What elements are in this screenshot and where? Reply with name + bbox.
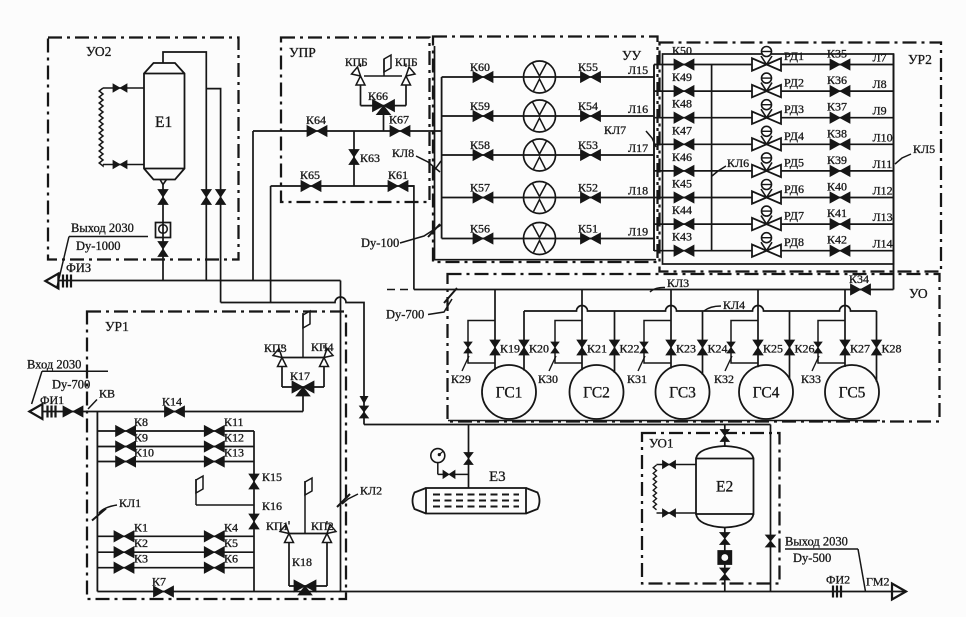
svg-text:К33: К33 (801, 372, 821, 386)
svg-text:К52: К52 (578, 181, 598, 195)
svg-text:К36: К36 (827, 73, 847, 87)
valve К21 (577, 340, 587, 355)
svg-text:УР2: УР2 (908, 52, 932, 67)
wire right column of УР1 (253, 431, 255, 592)
svg-text:К16: К16 (262, 499, 282, 513)
svg-text:К59: К59 (470, 99, 490, 113)
svg-text:КЛ5: КЛ5 (913, 142, 935, 156)
svg-text:КЛ8: КЛ8 (392, 146, 414, 160)
svg-text:Л7: Л7 (873, 51, 887, 65)
svg-text:РД5: РД5 (784, 155, 804, 169)
svg-text:Dy-700: Dy-700 (386, 308, 424, 322)
svg-text:УО1: УО1 (649, 436, 673, 451)
svg-text:Вход 2030: Вход 2030 (27, 358, 81, 372)
valve К54 (581, 111, 601, 122)
wire metering line Л19 (442, 238, 654, 240)
valve К47 (674, 139, 694, 150)
valve К1 (114, 531, 134, 542)
svg-text:К31: К31 (627, 372, 647, 386)
enclosure box УУ (433, 37, 658, 263)
valve К49 (674, 86, 694, 97)
three-way valve К18 (294, 580, 316, 592)
svg-text:КП1: КП1 (266, 519, 289, 533)
valve КВ (63, 406, 83, 417)
svg-text:КП3: КП3 (264, 341, 287, 355)
valve on coil top line (113, 84, 127, 92)
wire reduction line Л9 (654, 117, 894, 119)
svg-text:Dy-500: Dy-500 (793, 551, 831, 565)
gas holder ГС5 (825, 365, 879, 419)
valve К11 (204, 426, 224, 437)
svg-text:К61: К61 (388, 168, 408, 182)
wire metering line Л17 (442, 154, 654, 156)
flow meter on line Л15 (524, 61, 556, 93)
svg-text:К44: К44 (672, 203, 692, 217)
svg-text:Л16: Л16 (628, 102, 648, 116)
svg-text:Л10: Л10 (873, 130, 893, 144)
svg-text:К45: К45 (672, 177, 692, 191)
wire feed from КЛ3 to ГС2 (581, 290, 583, 371)
wire reduction line К3-К6 (97, 567, 254, 569)
vent candle of К66 loop (383, 59, 385, 76)
valve on Е2 coil top (663, 461, 676, 469)
svg-text:К20: К20 (529, 342, 549, 356)
valve К41 (830, 219, 850, 230)
valve К7 (154, 586, 174, 597)
svg-text:ФИ2: ФИ2 (826, 573, 850, 587)
svg-text:К54: К54 (578, 99, 598, 113)
wire collector КЛ2 drop from header (340, 281, 342, 592)
valve К59 (473, 111, 493, 122)
wire Е1 top outlet to risers (163, 52, 206, 281)
wire К66 bypass loop (360, 85, 362, 106)
flow arrow on Dy-700 drop (360, 396, 369, 404)
svg-text:К32: К32 (714, 372, 734, 386)
device (heater) on Е1 outlet (156, 223, 171, 238)
wire reduction line Л12 (654, 197, 894, 199)
pressure regulator РД2 (752, 85, 781, 97)
svg-text:К67: К67 (389, 113, 409, 127)
svg-text:УУ: УУ (622, 48, 642, 63)
svg-text:К29: К29 (451, 372, 471, 386)
wire feed from КЛ3 to ГС4 (757, 290, 759, 368)
svg-text:Л15: Л15 (628, 63, 648, 77)
wire inlet line (42, 411, 303, 413)
gas holder ГС3 (656, 365, 710, 419)
svg-text:КЛ1: КЛ1 (119, 496, 141, 510)
svg-text:К24: К24 (708, 342, 728, 356)
valve on Е1 outlet lower (158, 242, 168, 257)
wire Dy-700 line (line C) (221, 297, 364, 425)
valve К58 (473, 150, 493, 161)
wire riser branch (206, 89, 220, 303)
valve on Е2 outlet upper (720, 533, 730, 545)
svg-text:К5: К5 (224, 536, 238, 550)
svg-text:Л11: Л11 (873, 157, 893, 171)
svg-text:ФИ1: ФИ1 (40, 393, 64, 407)
valve К38 (830, 139, 850, 150)
vessel Е3 (413, 488, 540, 514)
svg-text:РД3: РД3 (784, 102, 804, 116)
vessel Е2 (696, 446, 754, 528)
valve К6 (204, 562, 224, 573)
enclosure box УО (448, 274, 940, 422)
svg-text:К55: К55 (578, 60, 598, 74)
valve К64 (307, 126, 327, 137)
valve К37 (830, 112, 850, 123)
valve К34 (851, 284, 871, 295)
flow meter on line Л18 (524, 182, 556, 214)
valve К24 (698, 340, 708, 355)
wire reduction line К2-К5 (97, 551, 254, 553)
wire feed from КЛ3 to ГС5 (844, 290, 846, 367)
valve К63 (349, 150, 359, 165)
valve К5 (204, 547, 224, 558)
valve on Е2 bypass (766, 535, 776, 547)
insulating joint ФИЗ (62, 275, 64, 288)
enclosure box УО2 (48, 38, 239, 260)
valve on Dy-700 drop (360, 406, 369, 418)
svg-text:УПР: УПР (289, 45, 316, 60)
svg-text:ГС5: ГС5 (839, 385, 866, 402)
wire feed from КЛ4 to ГС4 (789, 311, 791, 380)
svg-text:КЛ4: КЛ4 (723, 298, 745, 312)
svg-text:КЛ2: КЛ2 (360, 484, 382, 498)
svg-text:ФИЗ: ФИЗ (66, 261, 91, 275)
wire feed from КЛ4 to ГС5 (876, 311, 878, 382)
valve К10 (116, 456, 136, 467)
svg-text:К27: К27 (850, 342, 870, 356)
svg-text:К60: К60 (470, 60, 490, 74)
svg-text:РД8: РД8 (784, 235, 804, 249)
enclosure box УР2 (660, 43, 942, 272)
heat-exchanger coil of Е2 (653, 465, 656, 510)
svg-text:РД1: РД1 (784, 49, 804, 63)
wire К65 line drop (270, 186, 272, 303)
three-way valve К17 (292, 381, 314, 393)
valve К27 (840, 340, 850, 355)
flow meter on line Л16 (524, 100, 556, 132)
pressure regulator РД5 (752, 165, 781, 177)
pressure relief assembly К18 (304, 481, 306, 534)
wire collector КЛ3 (414, 289, 894, 291)
wire feed to Е3 (468, 425, 470, 489)
svg-text:К11: К11 (224, 415, 244, 429)
wire reduction line Л8 (654, 90, 894, 92)
valve К50 (674, 59, 694, 70)
svg-text:К14: К14 (162, 395, 182, 409)
valve К40 (830, 192, 850, 203)
svg-text:Л14: Л14 (873, 237, 893, 251)
svg-text:КЛ7: КЛ7 (604, 123, 626, 137)
valve К35 (830, 59, 850, 70)
svg-text:Dy-700: Dy-700 (52, 378, 90, 392)
wire reduction line К9-К12 (97, 446, 254, 448)
svg-text:К66: К66 (368, 89, 388, 103)
valve К52 (581, 192, 601, 203)
wire collector КЛ4 (524, 306, 877, 312)
wire main header Dy-1000 (line A) (58, 280, 341, 282)
collector КЛ6 manifold (711, 65, 713, 251)
svg-text:К41: К41 (827, 206, 847, 220)
svg-text:К10: К10 (134, 446, 154, 460)
svg-text:ГС3: ГС3 (669, 385, 696, 402)
valve К60 (473, 72, 493, 83)
valve К15 (249, 474, 259, 489)
svg-text:Выход 2030: Выход 2030 (785, 535, 848, 549)
valve К36 (830, 86, 850, 97)
valve К55 (581, 72, 601, 83)
svg-text:КП4: КП4 (311, 340, 334, 354)
wire reduction line К8-К11 (97, 430, 254, 432)
valve К3 (114, 562, 134, 573)
vessel Е1 (144, 63, 185, 180)
valve К2 (114, 547, 134, 558)
insulating joint ФИ1 (46, 406, 48, 418)
wire К17 drop (302, 393, 304, 412)
svg-text:К37: К37 (827, 100, 847, 114)
valve К39 (830, 165, 850, 176)
enclosure box УПР (281, 38, 430, 203)
svg-text:УР1: УР1 (105, 319, 129, 334)
wire feed from КЛ4 to ГС2 (614, 311, 616, 373)
wire К66 to К64 line (383, 112, 385, 131)
svg-text:К56: К56 (470, 222, 490, 236)
svg-text:РД4: РД4 (784, 129, 804, 143)
pressure regulator РД1 (752, 58, 781, 70)
svg-text:К6: К6 (224, 552, 238, 566)
bypass loop with valve К29 (468, 321, 495, 364)
svg-text:К2: К2 (134, 536, 148, 550)
valve К4 (204, 531, 224, 542)
svg-text:Л12: Л12 (873, 184, 893, 198)
wire feed from КЛ3 to ГС1 (494, 290, 496, 370)
bypass loop with valve К30 (555, 321, 582, 364)
svg-text:Л8: Л8 (873, 77, 887, 91)
collector КЛ8 manifold (441, 77, 443, 239)
wire УПР upper line to УУ (253, 130, 442, 132)
wire reduction line Л11 (654, 170, 894, 172)
wire metering line Л18 (442, 197, 654, 199)
svg-text:К49: К49 (672, 70, 692, 84)
svg-text:К22: К22 (620, 342, 640, 356)
valve К28 (872, 340, 882, 355)
svg-text:К50: К50 (672, 44, 692, 58)
svg-text:К25: К25 (763, 342, 783, 356)
valve К19 (490, 340, 500, 355)
svg-text:К23: К23 (676, 342, 696, 356)
valve К8 (116, 426, 136, 437)
wire reduction line Л14 (654, 250, 894, 252)
wire КЛ3 stub dashes (387, 289, 410, 291)
svg-text:КПБ: КПБ (395, 57, 418, 69)
gas holder ГС4 (739, 365, 793, 419)
wire Е2 bypass line (770, 425, 772, 592)
svg-text:К30: К30 (538, 372, 558, 386)
svg-text:К46: К46 (672, 150, 692, 164)
valve on Е3 feed (464, 453, 473, 465)
pressure relief assembly К17 (302, 313, 304, 358)
valve on Е2 outlet lower (720, 568, 730, 580)
wire feed from КЛ4 to ГС1 (523, 311, 525, 371)
wire УПР lower line (271, 185, 414, 187)
svg-text:К64: К64 (306, 113, 326, 127)
svg-text:К15: К15 (262, 470, 282, 484)
svg-text:КЛ3: КЛ3 (667, 276, 689, 290)
wire bottom outlet line (97, 591, 905, 593)
svg-text:К43: К43 (672, 230, 692, 244)
pressure regulator РД4 (752, 138, 781, 150)
outlet arrow ФИЗ (45, 274, 58, 289)
svg-text:К19: К19 (500, 342, 520, 356)
collector КЛ7 manifold (653, 65, 655, 252)
wire К63 column (353, 131, 355, 186)
svg-text:РД7: РД7 (784, 209, 804, 223)
svg-text:К4: К4 (224, 520, 238, 534)
wire reduction line Л10 (654, 143, 894, 145)
bypass loop with valve К33 (818, 321, 845, 364)
svg-text:К57: К57 (470, 181, 490, 195)
svg-text:Выход 2030: Выход 2030 (71, 221, 134, 235)
svg-text:К28: К28 (882, 342, 902, 356)
valve К12 (204, 441, 224, 452)
wire Е2 top feed (724, 425, 726, 447)
enclosure box УО1 (642, 433, 780, 584)
svg-text:Dy-100: Dy-100 (361, 236, 399, 250)
valve on Е2 coil bottom (663, 509, 676, 517)
svg-text:К63: К63 (360, 151, 380, 165)
svg-text:ГС4: ГС4 (753, 385, 780, 402)
svg-text:УО2: УО2 (86, 44, 111, 59)
svg-text:РД6: РД6 (784, 182, 804, 196)
wire metering line Л15 (442, 76, 654, 78)
svg-text:К65: К65 (300, 168, 320, 182)
svg-text:К40: К40 (827, 180, 847, 194)
wire left manifold of УР1 (96, 412, 98, 592)
wire К64 line drop to header (252, 131, 254, 281)
valve К16 (249, 514, 259, 529)
svg-text:К8: К8 (134, 415, 148, 429)
svg-text:Dy-1000: Dy-1000 (76, 239, 120, 253)
wire reduction line Л13 (654, 223, 894, 225)
valve К20 (519, 340, 529, 355)
valve К13 (204, 456, 224, 467)
outlet arrow ГМ2 (892, 584, 906, 600)
pressure regulator РД6 (752, 191, 781, 203)
svg-text:К35: К35 (827, 47, 847, 61)
svg-text:К47: К47 (672, 123, 692, 137)
wire feed from КЛ3 to ГС3 (670, 290, 672, 369)
insulating joint ФИ2 (832, 586, 834, 598)
wire reduction line Л7 (654, 64, 894, 66)
svg-text:К51: К51 (578, 222, 598, 236)
wire reduction line К10-К13 (97, 461, 254, 463)
svg-text:К1: К1 (134, 520, 148, 534)
svg-text:К38: К38 (827, 126, 847, 140)
svg-text:ГС2: ГС2 (583, 385, 610, 402)
inner frame of УУ (435, 46, 657, 260)
svg-text:К26: К26 (795, 342, 815, 356)
svg-text:КВ: КВ (99, 387, 115, 401)
svg-text:Л9: Л9 (873, 104, 887, 118)
svg-text:Л18: Л18 (628, 184, 648, 198)
svg-text:Л13: Л13 (873, 210, 893, 224)
pressure regulator РД8 (752, 245, 781, 257)
wire Е1 bottom outlet (162, 185, 164, 281)
valve К44 (674, 219, 694, 230)
gas holder ГС1 (482, 365, 536, 419)
valve К25 (753, 340, 763, 355)
valve К65 (301, 181, 321, 192)
wire feed from КЛ4 to ГС3 (702, 311, 704, 375)
svg-text:К39: К39 (827, 153, 847, 167)
inner bottom line of УО (448, 420, 880, 422)
svg-text:КП2: КП2 (311, 519, 334, 533)
gas holder ГС2 (570, 365, 624, 419)
bypass loop with valve К31 (644, 321, 671, 364)
safety valve КПБ left (356, 76, 365, 85)
inner frame of УР2 (663, 54, 894, 264)
pressure gauge on Е3 line (431, 449, 445, 463)
valve К14 (165, 406, 185, 417)
svg-text:ГС1: ГС1 (496, 385, 523, 402)
safety valve КПБ right (402, 76, 411, 85)
svg-text:Е1: Е1 (155, 114, 172, 131)
flow meter on line Л17 (524, 139, 556, 171)
valve on riser 1 (201, 190, 211, 205)
valve К51 (581, 233, 601, 244)
valve К26 (785, 340, 795, 355)
valve К22 (610, 340, 620, 355)
collector КЛ5 manifold (893, 54, 895, 290)
valve К48 (674, 112, 694, 123)
svg-text:КЛ6: КЛ6 (727, 156, 749, 170)
svg-text:К48: К48 (672, 97, 692, 111)
three-way valve К66 (373, 100, 395, 112)
svg-text:К12: К12 (224, 431, 244, 445)
wire Е2 bottom outlet (724, 528, 726, 592)
heat-exchanger coil of Е1 (99, 88, 103, 166)
svg-text:Е2: Е2 (716, 479, 733, 496)
flow meter on line Л19 (524, 223, 556, 255)
svg-text:К9: К9 (134, 431, 148, 445)
valve К67 (390, 126, 410, 137)
wire К18 drop (304, 589, 306, 592)
svg-text:К18: К18 (292, 555, 312, 569)
svg-text:К3: К3 (134, 552, 148, 566)
svg-text:Л19: Л19 (628, 225, 648, 239)
valve К42 (830, 245, 850, 256)
svg-text:К17: К17 (290, 369, 310, 383)
svg-text:К21: К21 (587, 342, 607, 356)
svg-text:Л17: Л17 (628, 141, 648, 155)
valve К9 (116, 441, 136, 452)
bypass loop with valve К32 (731, 321, 758, 364)
valve on Е2 top feed (720, 430, 729, 442)
valve К45 (674, 192, 694, 203)
valve К56 (473, 233, 493, 244)
svg-text:К7: К7 (152, 575, 166, 589)
wire К61 drop to КЛ3 (408, 186, 414, 290)
pressure regulator РД3 (752, 112, 781, 124)
valve on Е1 outlet upper (158, 190, 168, 205)
wire metering line Л16 (442, 115, 654, 117)
svg-text:К53: К53 (578, 138, 598, 152)
valve К53 (581, 150, 601, 161)
device (filter) on Е2 outlet (718, 551, 731, 564)
svg-text:Е3: Е3 (489, 469, 506, 485)
pressure regulator РД7 (752, 218, 781, 230)
